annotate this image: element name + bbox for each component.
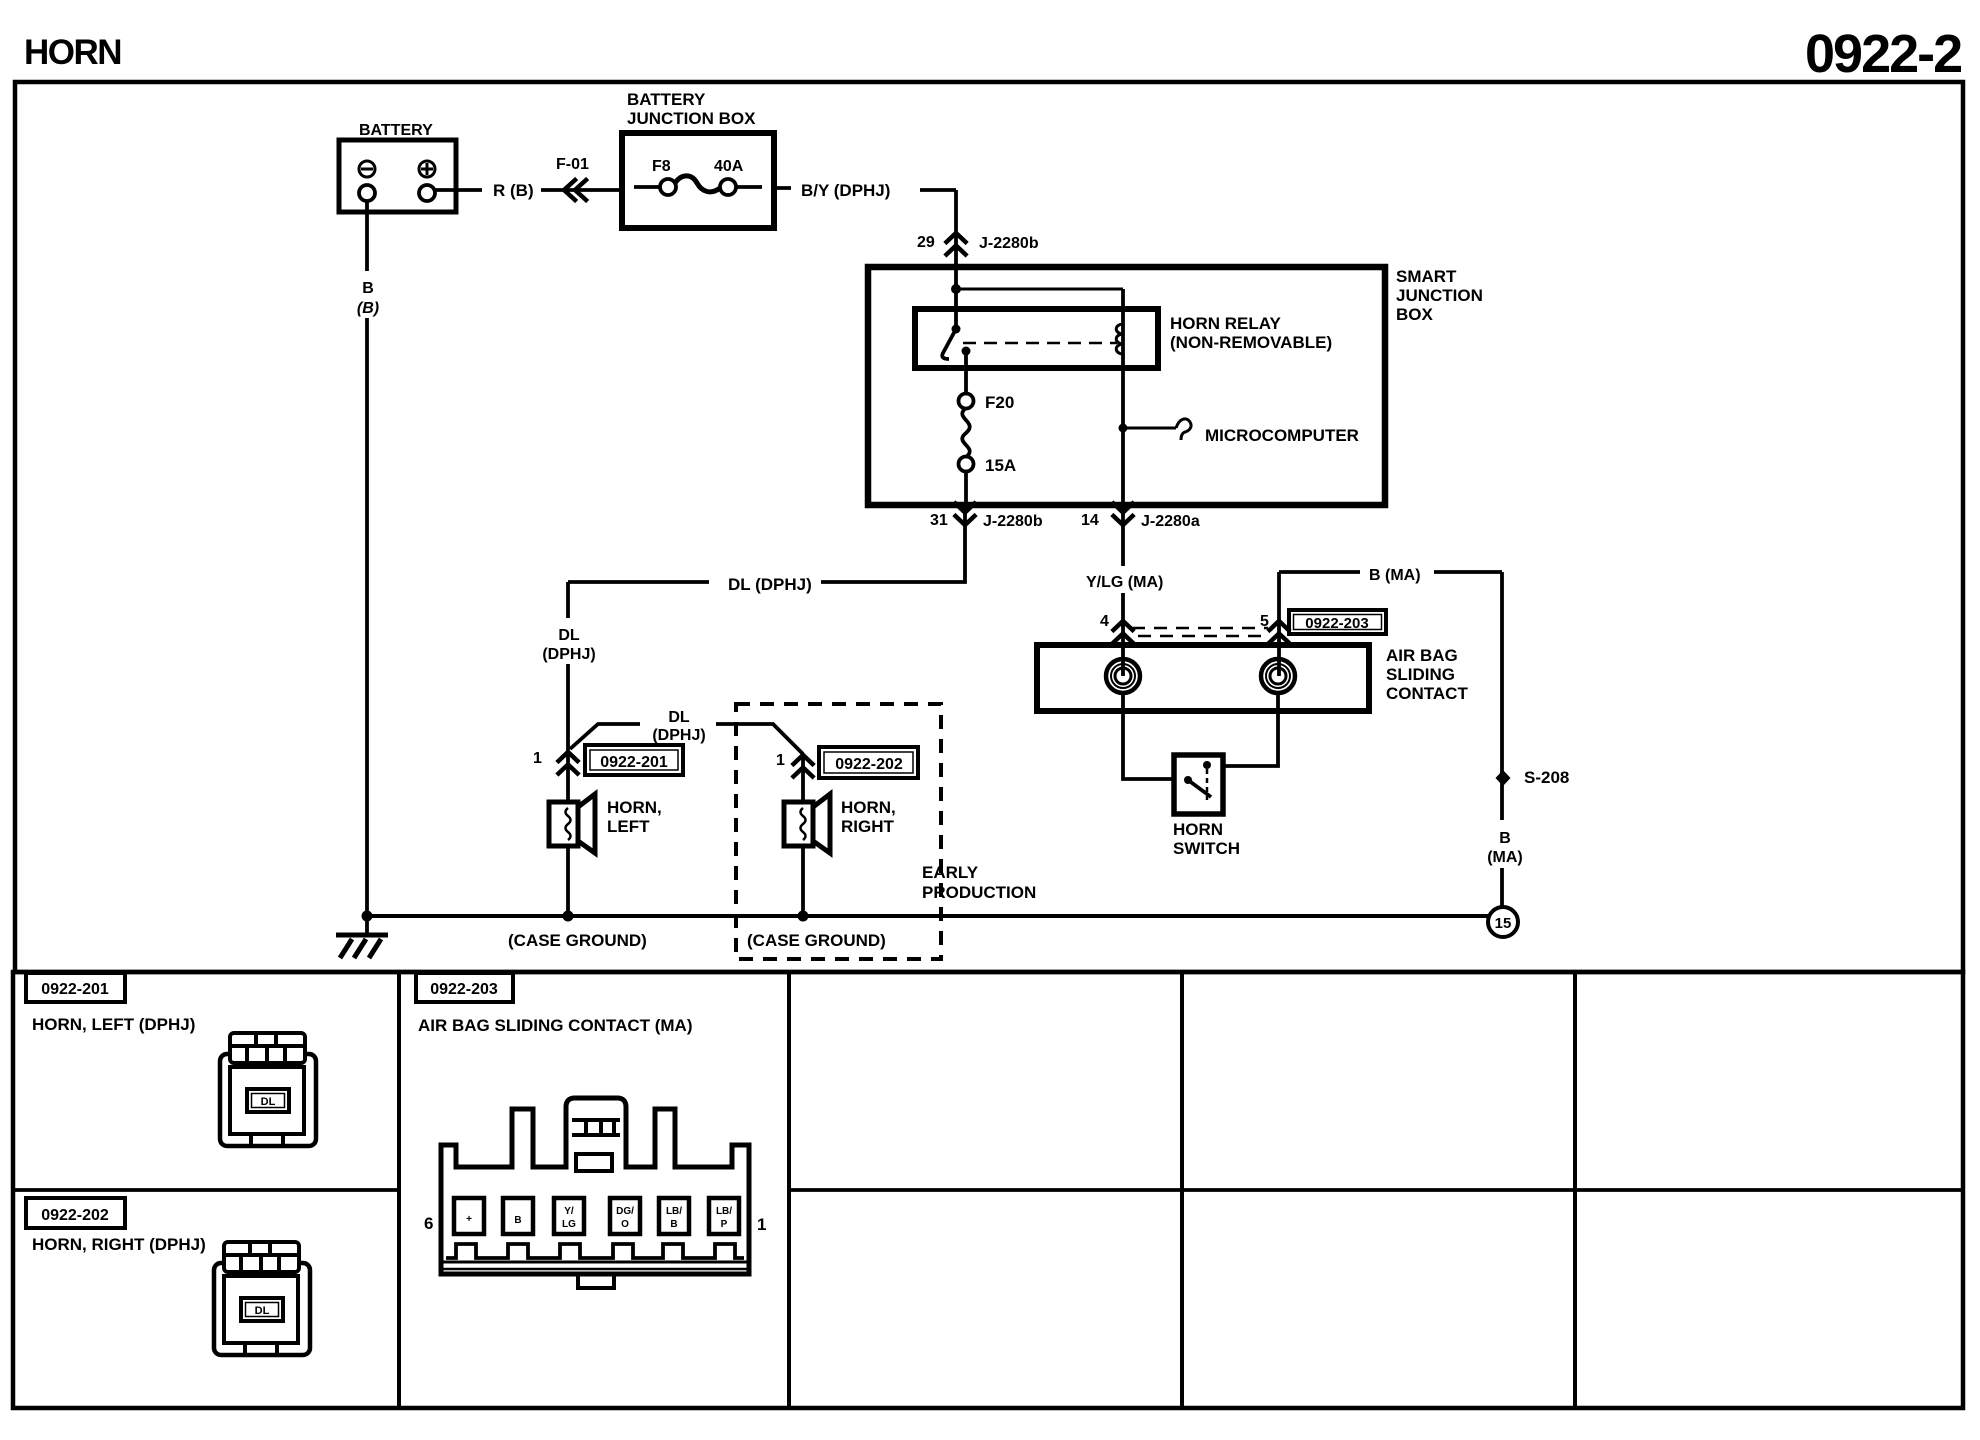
svg-text:DG/: DG/ [616, 1206, 634, 1217]
svg-text:CONTACT: CONTACT [1386, 684, 1468, 703]
svg-text:F8: F8 [652, 158, 671, 175]
svg-text:J-2280b: J-2280b [979, 235, 1039, 252]
svg-text:AIR BAG SLIDING CONTACT (MA): AIR BAG SLIDING CONTACT (MA) [418, 1016, 693, 1035]
svg-text:R (B): R (B) [493, 181, 534, 200]
svg-text:LG: LG [562, 1219, 576, 1230]
svg-text:Y/: Y/ [564, 1206, 574, 1217]
svg-text:(MA): (MA) [1487, 849, 1523, 866]
svg-text:DL: DL [668, 709, 690, 726]
svg-text:DL: DL [558, 627, 580, 644]
svg-text:0922-202: 0922-202 [41, 1207, 109, 1224]
svg-text:HORN,: HORN, [841, 798, 896, 817]
svg-text:J-2280a: J-2280a [1141, 513, 1200, 530]
svg-text:6: 6 [424, 1214, 433, 1233]
svg-text:S-208: S-208 [1524, 768, 1569, 787]
svg-text:HORN, LEFT (DPHJ): HORN, LEFT (DPHJ) [32, 1015, 195, 1034]
svg-text:40A: 40A [714, 158, 744, 175]
svg-text:SMART: SMART [1396, 267, 1457, 286]
svg-text:15: 15 [1495, 915, 1512, 932]
svg-text:F20: F20 [985, 393, 1014, 412]
svg-text:LB/: LB/ [716, 1206, 732, 1217]
svg-text:P: P [721, 1219, 728, 1230]
svg-text:(DPHJ): (DPHJ) [542, 646, 595, 663]
svg-text:DL: DL [261, 1096, 276, 1108]
svg-text:HORN: HORN [1173, 820, 1223, 839]
svg-text:MICROCOMPUTER: MICROCOMPUTER [1205, 426, 1359, 445]
svg-text:1: 1 [757, 1215, 766, 1234]
svg-text:O: O [621, 1219, 629, 1230]
svg-text:BATTERY: BATTERY [627, 90, 706, 109]
svg-text:0922-2: 0922-2 [1805, 24, 1961, 84]
svg-text:SWITCH: SWITCH [1173, 839, 1240, 858]
svg-text:0922-201: 0922-201 [600, 754, 668, 771]
svg-text:F-01: F-01 [556, 156, 589, 173]
svg-text:B: B [514, 1215, 521, 1226]
svg-text:29: 29 [917, 234, 935, 251]
svg-text:4: 4 [1100, 613, 1109, 630]
svg-text:0922-202: 0922-202 [835, 756, 903, 773]
svg-text:1: 1 [533, 750, 542, 767]
svg-text:B: B [362, 280, 374, 297]
svg-text:Y/LG (MA): Y/LG (MA) [1086, 574, 1163, 591]
svg-text:HORN,: HORN, [607, 798, 662, 817]
svg-text:(NON-REMOVABLE): (NON-REMOVABLE) [1170, 333, 1332, 352]
svg-text:SLIDING: SLIDING [1386, 665, 1455, 684]
svg-text:BATTERY: BATTERY [359, 122, 433, 139]
svg-text:31: 31 [930, 512, 948, 529]
svg-text:0922-203: 0922-203 [430, 981, 498, 998]
svg-text:1: 1 [776, 752, 785, 769]
svg-text:+: + [466, 1214, 472, 1225]
svg-text:14: 14 [1081, 512, 1099, 529]
svg-text:B: B [670, 1219, 677, 1230]
svg-text:(DPHJ): (DPHJ) [652, 727, 705, 744]
svg-text:JUNCTION BOX: JUNCTION BOX [627, 109, 756, 128]
svg-text:LEFT: LEFT [607, 817, 650, 836]
svg-text:(CASE GROUND): (CASE GROUND) [747, 931, 886, 950]
svg-text:HORN RELAY: HORN RELAY [1170, 314, 1281, 333]
svg-text:B: B [1499, 830, 1511, 847]
svg-text:AIR BAG: AIR BAG [1386, 646, 1458, 665]
svg-text:DL (DPHJ): DL (DPHJ) [728, 575, 812, 594]
svg-text:HORN, RIGHT (DPHJ): HORN, RIGHT (DPHJ) [32, 1235, 206, 1254]
svg-text:DL: DL [255, 1305, 270, 1317]
svg-text:PRODUCTION: PRODUCTION [922, 883, 1036, 902]
svg-text:EARLY: EARLY [922, 863, 979, 882]
svg-text:(B): (B) [357, 300, 379, 317]
svg-text:0922-201: 0922-201 [41, 981, 109, 998]
svg-text:HORN: HORN [24, 33, 121, 72]
svg-text:LB/: LB/ [666, 1206, 682, 1217]
svg-text:RIGHT: RIGHT [841, 817, 895, 836]
svg-text:JUNCTION: JUNCTION [1396, 286, 1483, 305]
svg-text:B (MA): B (MA) [1369, 567, 1421, 584]
svg-text:(CASE GROUND): (CASE GROUND) [508, 931, 647, 950]
svg-text:B/Y (DPHJ): B/Y (DPHJ) [801, 181, 890, 200]
svg-text:15A: 15A [985, 456, 1016, 475]
svg-text:J-2280b: J-2280b [983, 513, 1043, 530]
svg-text:0922-203: 0922-203 [1305, 615, 1368, 632]
svg-text:BOX: BOX [1396, 305, 1434, 324]
